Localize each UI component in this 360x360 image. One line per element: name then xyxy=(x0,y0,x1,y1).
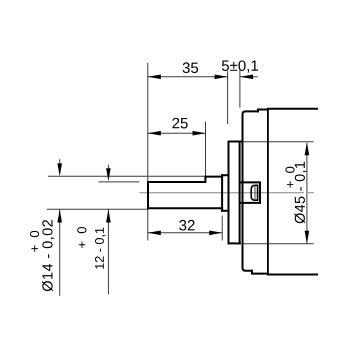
housing body xyxy=(243,109,318,275)
arrow 35 left xyxy=(148,75,161,80)
dim line dia45 xyxy=(306,143,308,244)
arrow 35 right / 5 left (merged) xyxy=(215,75,228,80)
top step xyxy=(258,110,268,112)
text dia45 value xyxy=(294,162,306,224)
text 25 xyxy=(172,118,187,129)
top edge rear xyxy=(268,108,317,110)
ext line collar face x=222.2 xyxy=(221,216,223,241)
text 35 xyxy=(183,62,198,73)
arrow 25 right xyxy=(193,131,206,136)
text 12 tolerance upper xyxy=(77,227,86,248)
text 12 value xyxy=(95,228,105,269)
arrow 12 down xyxy=(106,168,111,181)
ext line flange back x=239.9 xyxy=(239,70,241,108)
text dia14 value xyxy=(42,220,54,291)
dim line 5 tail xyxy=(240,76,258,78)
arrow dia45 top xyxy=(305,142,310,155)
ext line flat end x=205.5 xyxy=(205,122,207,177)
bottom edge rear xyxy=(268,274,317,276)
dimension lines xyxy=(60,77,307,296)
bottom step xyxy=(252,271,268,274)
ext line flange front x=228.4 xyxy=(227,71,229,124)
housing section seam xyxy=(267,109,269,275)
text 32 xyxy=(179,220,194,231)
centerline (shaft axis) xyxy=(139,192,313,194)
arrow 25 left xyxy=(148,131,161,136)
dim line 32 xyxy=(148,232,222,234)
D insert inner edge xyxy=(254,186,256,201)
extension lines (thin) xyxy=(47,63,314,244)
collar ring at flange front xyxy=(222,175,228,211)
dim line 25 xyxy=(148,132,206,134)
arrow 32 left xyxy=(148,231,161,236)
ext line shaft dia top y=176.2 xyxy=(48,175,205,177)
leader dia14 upper xyxy=(59,159,61,166)
D-shaped insert in lug xyxy=(251,185,257,200)
text dia14 tolerance upper xyxy=(30,231,39,252)
ext line shaft tip x=147.8 xyxy=(147,63,149,241)
ext line flange bottom y=243.8 xyxy=(242,243,313,245)
arrow dia45 bottom xyxy=(305,231,310,244)
arrow dia14 up xyxy=(57,210,62,223)
arrow 5 right (outside) xyxy=(240,75,253,80)
arrow 12 up xyxy=(106,210,111,223)
ext line shaft bottom y=209.3 xyxy=(47,208,148,210)
front face with rounded corners and top/bottom stepped edges xyxy=(243,111,258,270)
leader 12 upper xyxy=(107,165,109,170)
lug recess box on housing front xyxy=(241,182,260,203)
flange plate dia45 xyxy=(229,142,243,244)
arrowheads xyxy=(57,75,309,244)
text dia45 tolerance upper xyxy=(285,167,294,188)
leader 12 lower xyxy=(107,210,109,295)
text 5±0,1 xyxy=(222,60,258,72)
dim line 35 xyxy=(148,76,228,78)
leader dia14 lower xyxy=(59,210,61,296)
ext line flange top y=141.7 xyxy=(242,141,313,143)
arrow dia14 down xyxy=(57,163,62,176)
ext line flat level y=181.9 xyxy=(98,181,139,183)
shaft outline xyxy=(148,177,222,209)
arrow 32 right xyxy=(209,231,222,236)
